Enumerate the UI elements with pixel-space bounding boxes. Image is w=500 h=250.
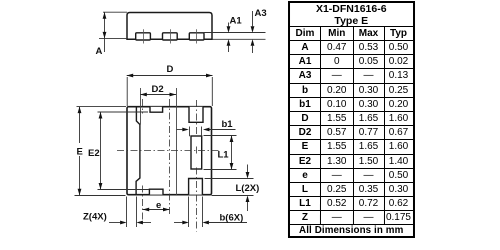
svg-text:E2: E2 — [88, 148, 100, 159]
svg-text:L1: L1 — [218, 149, 230, 160]
svg-text:e: e — [156, 200, 161, 211]
svg-text:b(6X): b(6X) — [220, 213, 244, 224]
svg-text:A1: A1 — [230, 16, 243, 27]
svg-text:b1: b1 — [222, 119, 234, 130]
svg-text:A3: A3 — [255, 8, 267, 19]
svg-text:D: D — [167, 64, 174, 75]
svg-text:Z(4X): Z(4X) — [83, 212, 107, 223]
svg-text:E: E — [77, 147, 83, 158]
svg-text:D2: D2 — [152, 84, 164, 95]
svg-text:A: A — [96, 46, 103, 57]
svg-text:L(2X): L(2X) — [236, 183, 260, 194]
